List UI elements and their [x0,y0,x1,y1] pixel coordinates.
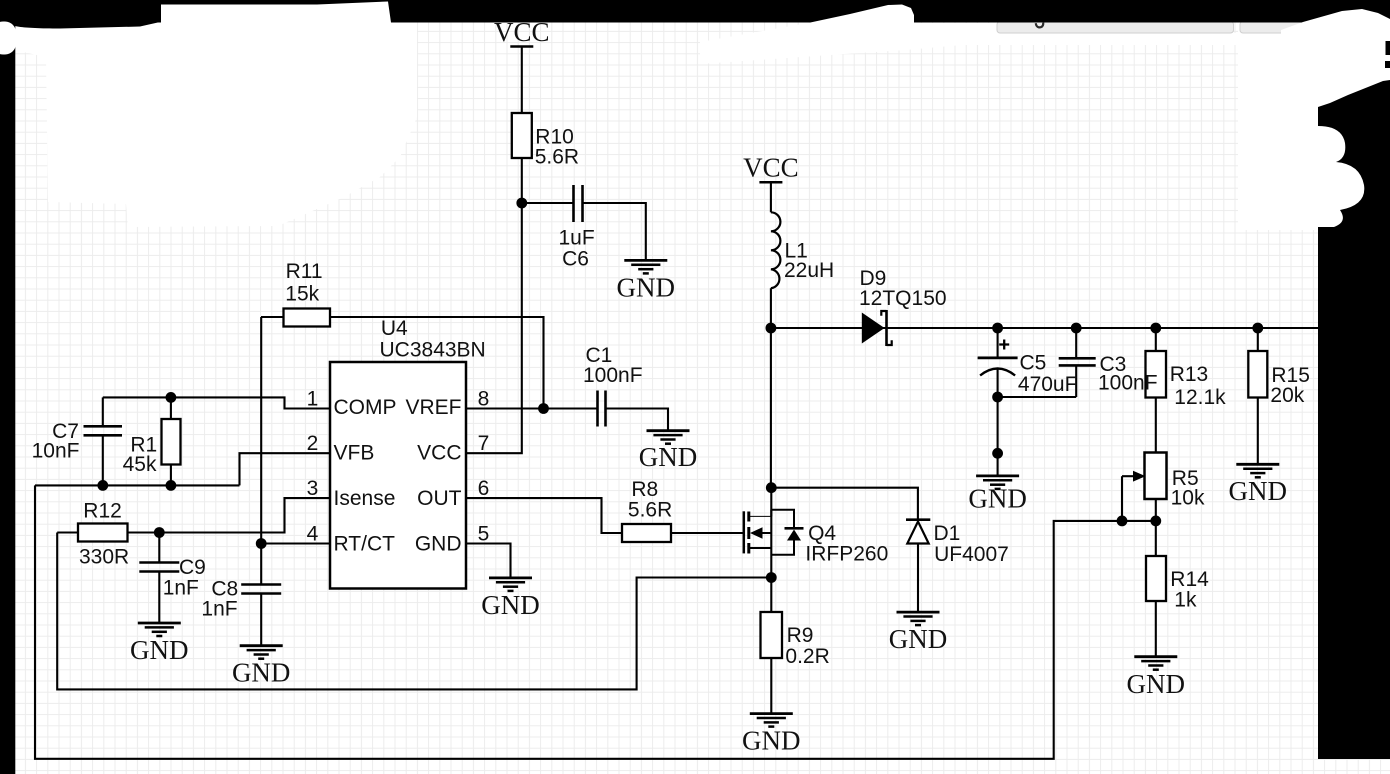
capacitor C6 [574,185,583,222]
svg-text:GND: GND [415,533,462,556]
wire C5 gnd stem [997,397,999,476]
svg-text:VREF: VREF [405,396,461,419]
ground (R15) [1236,464,1279,477]
body diode loop [771,510,794,527]
svg-text:GND: GND [232,658,291,688]
source stub [750,547,771,549]
wire pin8 to C1 [466,407,598,409]
wire R5 wiper [1122,475,1133,477]
inductor L1 [771,212,781,288]
drain stub [750,515,771,517]
wire C1 right to gnd [606,409,669,431]
capacitor C3 [1059,358,1096,365]
wire pin6 to R8 [466,498,622,533]
gate bar [743,511,746,553]
wire R15 top stem [1257,328,1259,351]
svg-text:VCC: VCC [743,153,799,183]
capacitor C5 (polarized) [978,340,1018,376]
resistor R9 [761,612,783,658]
wire R11 left vertical to C8 [260,317,262,585]
junction R1 bottom [166,480,177,491]
wire R1 bottom stem [170,465,172,486]
svg-text:R13: R13 [1170,363,1209,386]
svg-text:OUT: OUT [417,487,462,510]
wire current sense loop [57,533,771,690]
wire R1 top stem [170,397,172,419]
small black patches inside top-right gap [1374,0,1390,68]
svg-text:D1: D1 [934,522,961,545]
svg-text:C6: C6 [562,248,589,271]
black mask strips [0,0,1390,23]
wire R11 left [261,316,284,318]
svg-text:5: 5 [478,522,490,545]
wire C9 top stem [158,533,160,563]
svg-text:1nF: 1nF [201,598,237,621]
svg-text:VFB: VFB [334,442,375,465]
svg-text:1uF: 1uF [559,226,595,249]
resistor R12 [78,524,128,542]
svg-text:2: 2 [307,432,319,455]
wire R15 to gnd [1257,398,1259,465]
svg-text:UC3843BN: UC3843BN [380,339,486,362]
transistor Q4 (N-MOSFET) [744,510,804,555]
wire R14 to gnd [1155,601,1157,657]
wire C5 bottom row [998,396,1077,398]
wire R9 top stem [770,578,772,613]
wire C5 top stem [997,328,999,358]
Q4 body diode triangle [787,530,801,541]
svg-text:VCC: VCC [417,442,461,465]
component bodies [78,113,1267,658]
junction L1 / D9 anode [766,323,777,334]
junction rail / R15 [1252,323,1263,334]
wire C3 bottom stem [1075,365,1077,397]
svg-text:GND: GND [1127,669,1186,699]
wire C5 mid stem [997,368,999,397]
resistor R8 [622,524,671,542]
svg-text:1: 1 [307,387,319,410]
diode D1 [906,520,930,544]
resistor R1 [162,419,181,465]
ground (C8) [240,646,283,659]
wire R5 wiper vertical [1121,476,1123,521]
svg-text:Isense: Isense [334,487,396,510]
wire L1 bottom [770,288,772,328]
wire R8 to gate [671,532,744,534]
junction RT/CT / C8 [256,538,267,549]
svg-text:RT/CT: RT/CT [334,533,396,556]
junction R10/C6 VCC node [516,198,527,209]
svg-text:4: 4 [307,522,319,545]
svg-text:UF4007: UF4007 [934,543,1009,566]
svg-text:8: 8 [478,387,490,410]
svg-text:COMP: COMP [334,396,397,419]
resistor R13 [1146,351,1167,398]
wire R12 right to pin3 [128,498,331,532]
junction rail / C3 [1071,323,1082,334]
VCC1 stem [521,47,523,114]
svg-text:5.6R: 5.6R [628,499,672,522]
svg-text:IRFP260: IRFP260 [805,542,888,565]
capacitor C1 [598,391,606,427]
svg-text:100nF: 100nF [583,364,643,387]
wire VCC2 stem [770,182,772,212]
junction rail / C5 [992,323,1003,334]
resistor R10 [512,113,532,158]
diode D9 (schottky) [862,310,892,346]
wire R10 to pin7 [466,158,522,453]
gap over left strip [0,22,16,55]
wire R13 to R5 [1155,398,1157,453]
VCC2 bar [759,181,782,184]
junction C7 bottom [97,480,108,491]
wire R13 top stem [1155,328,1157,351]
wire R12 left [57,531,78,533]
svg-text:10nF: 10nF [32,440,80,463]
ground (pin5) [489,578,532,591]
svg-text:R11: R11 [286,260,323,283]
browser toolbar bars [997,22,1390,34]
wire feedback row [35,484,240,486]
svg-text:470uF: 470uF [1018,373,1078,396]
svg-text:GND: GND [639,442,698,472]
svg-text:20k: 20k [1270,384,1304,407]
ground (D1) [897,612,940,625]
svg-text:12.1k: 12.1k [1174,386,1226,409]
wire C6 right to gnd [583,203,646,260]
big top-right gap [1281,9,1390,107]
body stub [763,532,772,534]
svg-text:GND: GND [481,590,540,620]
svg-text:VCC: VCC [494,17,550,47]
wire C3 top stem [1075,328,1077,358]
svg-text:R8: R8 [631,478,658,501]
ground (C6) [624,260,667,273]
R5 wiper arrow head [1133,471,1146,482]
channel dashes [747,512,750,522]
svg-text:GND: GND [968,484,1027,514]
svg-text:1nF: 1nF [163,577,199,600]
junction VREF node [538,403,549,414]
clipped letter g in toolbar [1036,23,1043,28]
potentiometer R5 body [1145,453,1167,500]
svg-text:6: 6 [478,477,490,500]
svg-text:0.2R: 0.2R [785,645,829,668]
svg-text:R9: R9 [787,624,814,647]
VCC1 bar [510,45,533,48]
resistor R15 [1248,351,1267,398]
wire C6 left [522,202,574,204]
svg-text:22uH: 22uH [784,259,834,282]
ground (R14) [1134,657,1177,670]
wire pin2 jog [240,453,331,485]
resistor R14 [1146,556,1166,601]
gap over top strip (left) [161,2,391,23]
output rail [771,327,1319,329]
wire D1 to gnd [917,544,919,613]
ground (C1) [647,431,690,444]
svg-text:GND: GND [742,726,801,756]
junction R1 top / COMP node [166,392,177,403]
junction R5 wiper / feedback [1117,516,1128,527]
wire C9 bottom stem [158,572,160,624]
svg-text:C5: C5 [1020,352,1047,375]
svg-text:R12: R12 [83,499,122,522]
wire pin4 [261,542,330,544]
svg-text:10k: 10k [1171,487,1205,510]
svg-text:100nF: 100nF [1098,371,1158,394]
capacitor C8 [241,585,281,594]
svg-text:GND: GND [1229,476,1288,506]
ground (C9) [138,623,181,636]
capacitor C9 [139,563,179,572]
wire C8 bottom stem [260,594,262,646]
capacitor C7 [84,426,123,435]
svg-text:330R: 330R [79,546,129,569]
junction Q4 source / R9 [766,572,777,583]
svg-text:7: 7 [478,432,490,455]
wire R5 to R14 [1155,499,1157,556]
ground (R9) [750,714,793,727]
wire C7 bottom stem [102,435,104,485]
svg-text:45k: 45k [123,453,157,476]
junction R5 bottom / R14 [1150,516,1161,527]
wire pin5 to gnd [466,544,511,578]
wire L1 to Q4 drain [770,328,772,488]
ground (C5) [976,476,1019,489]
svg-text:3: 3 [307,477,319,500]
Q4 arrow [750,527,763,539]
wire Q4 column [770,488,772,578]
junction rail / R13 [1150,323,1161,334]
svg-text:U4: U4 [381,317,408,340]
junction Q4 drain [766,482,777,493]
wire pin1 [103,397,330,408]
svg-text:GND: GND [889,624,948,654]
svg-text:1k: 1k [1174,588,1197,611]
wire drain to D1 [771,488,918,520]
long feedback wire [35,485,1156,758]
svg-text:12TQ150: 12TQ150 [859,287,947,310]
junction C5 gnd stem [992,448,1003,459]
diagonal wedge gap [808,5,914,24]
wire C7 top stem [102,397,104,426]
wire R11 right to pin8 [330,317,544,409]
svg-text:GND: GND [617,273,676,303]
wire R9 bottom to gnd [770,658,772,714]
white eraser gaps over black strips [0,2,1390,228]
resistor R11 [284,309,331,327]
svg-text:GND: GND [130,635,189,665]
eraser blobs hiding grid (top-left) [14,22,1318,230]
junction C5 bottom / C3 bottom [992,392,1003,403]
IC U4 box [330,362,466,589]
junction R12/C9 [154,527,165,538]
svg-text:5.6R: 5.6R [535,145,579,168]
svg-text:15k: 15k [285,283,319,306]
